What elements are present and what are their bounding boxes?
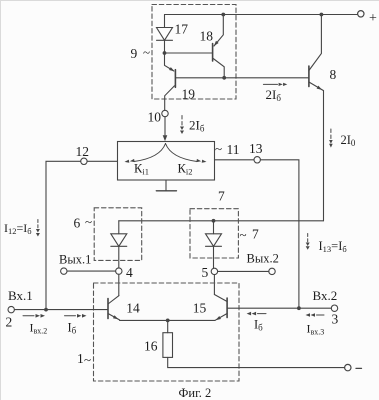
svg-text:4: 4 <box>126 265 133 280</box>
svg-text:12: 12 <box>76 144 90 159</box>
current label I13=I6 <box>307 234 309 243</box>
diode 17 <box>164 15 166 28</box>
svg-text:3: 3 <box>332 312 339 327</box>
svg-text:Вх.1: Вх.1 <box>8 288 33 303</box>
transistor 14 <box>107 299 109 319</box>
wire Bx.1 to base 14 <box>14 309 108 311</box>
svg-text:Вых.2: Вых.2 <box>247 252 279 266</box>
wire node12 down to Bx.1 line <box>46 161 81 309</box>
current arrow Ivx.3 <box>306 313 311 317</box>
terminal plus <box>358 11 364 17</box>
svg-text:11: 11 <box>227 142 240 157</box>
transistor 15 <box>226 298 228 318</box>
svg-text:+: + <box>369 11 377 26</box>
wire node10 to splitter with arrow <box>164 117 166 135</box>
current arrow 2I6 into splitter <box>181 116 183 126</box>
svg-text:10: 10 <box>148 110 162 125</box>
junction dot 18 emitter on top rail <box>221 13 225 17</box>
svg-text:7: 7 <box>218 189 225 204</box>
svg-text:8: 8 <box>330 67 337 82</box>
svg-text:15: 15 <box>193 301 207 316</box>
svg-text:~: ~ <box>85 214 92 229</box>
box 7 dashed <box>190 209 238 258</box>
ground <box>165 180 167 191</box>
terminal minus <box>345 364 351 370</box>
diode 7 <box>212 219 216 223</box>
wire Bx.2 to base 15 <box>227 307 331 309</box>
svg-text:6: 6 <box>74 216 81 231</box>
junction dot collector 18 <box>222 76 226 80</box>
current arrow I6 left <box>65 315 76 317</box>
svg-text:~: ~ <box>240 227 247 242</box>
terminal node 10 <box>162 110 168 116</box>
current arrow Ivx.2 <box>23 315 34 317</box>
transistor 8 <box>308 66 310 87</box>
wire top supply rail <box>165 14 358 16</box>
svg-text:18: 18 <box>200 29 214 44</box>
node 4 <box>116 268 122 274</box>
svg-text:2: 2 <box>6 315 13 330</box>
node 5 <box>211 268 217 274</box>
box 6 dashed <box>94 208 142 261</box>
splitter right arc Ki2 <box>166 144 198 162</box>
svg-text:~: ~ <box>143 45 150 60</box>
wire node5 down <box>213 275 215 295</box>
splitter left arc Ki1 <box>134 144 166 162</box>
transistor 19 <box>174 70 176 88</box>
wire diode rail y221 to emitter of 8 <box>119 220 324 222</box>
svg-text:~: ~ <box>215 141 222 156</box>
svg-text:5: 5 <box>202 265 209 280</box>
wire node4 down <box>118 274 120 295</box>
box 9 dashed <box>152 5 236 100</box>
diode 6 <box>118 221 120 234</box>
wire base line 19 to 8 <box>175 77 309 79</box>
node junction below diode 17 <box>163 51 167 55</box>
svg-text:Вых.1: Вых.1 <box>59 253 91 267</box>
current arrow 2I6 at base of 8 <box>263 83 277 85</box>
node 13 <box>215 159 255 161</box>
svg-text:9: 9 <box>131 46 138 61</box>
wire node13 down to Bx.2 line <box>260 160 299 308</box>
node 12 <box>87 160 117 162</box>
box 1 dashed <box>94 283 240 381</box>
svg-text:Фиг. 2: Фиг. 2 <box>179 386 212 400</box>
svg-text:17: 17 <box>175 22 189 37</box>
current arrow 2I0 on emitter of 8 <box>330 129 332 139</box>
svg-text:13: 13 <box>249 141 263 156</box>
svg-text:14: 14 <box>126 301 140 316</box>
svg-text:19: 19 <box>182 87 196 102</box>
current splitter block 11 <box>118 142 215 181</box>
svg-text:7: 7 <box>252 227 259 242</box>
resistor 16 <box>167 320 169 332</box>
transistor 18 <box>212 44 214 62</box>
current arrow I6 right <box>247 312 252 316</box>
wire emitters join <box>120 319 216 321</box>
svg-text:Вх.2: Вх.2 <box>313 288 338 303</box>
svg-text:~: ~ <box>84 352 91 367</box>
svg-text:16: 16 <box>144 339 158 354</box>
junction dot collector 8 on top rail <box>320 13 324 17</box>
svg-text:1: 1 <box>77 351 84 366</box>
